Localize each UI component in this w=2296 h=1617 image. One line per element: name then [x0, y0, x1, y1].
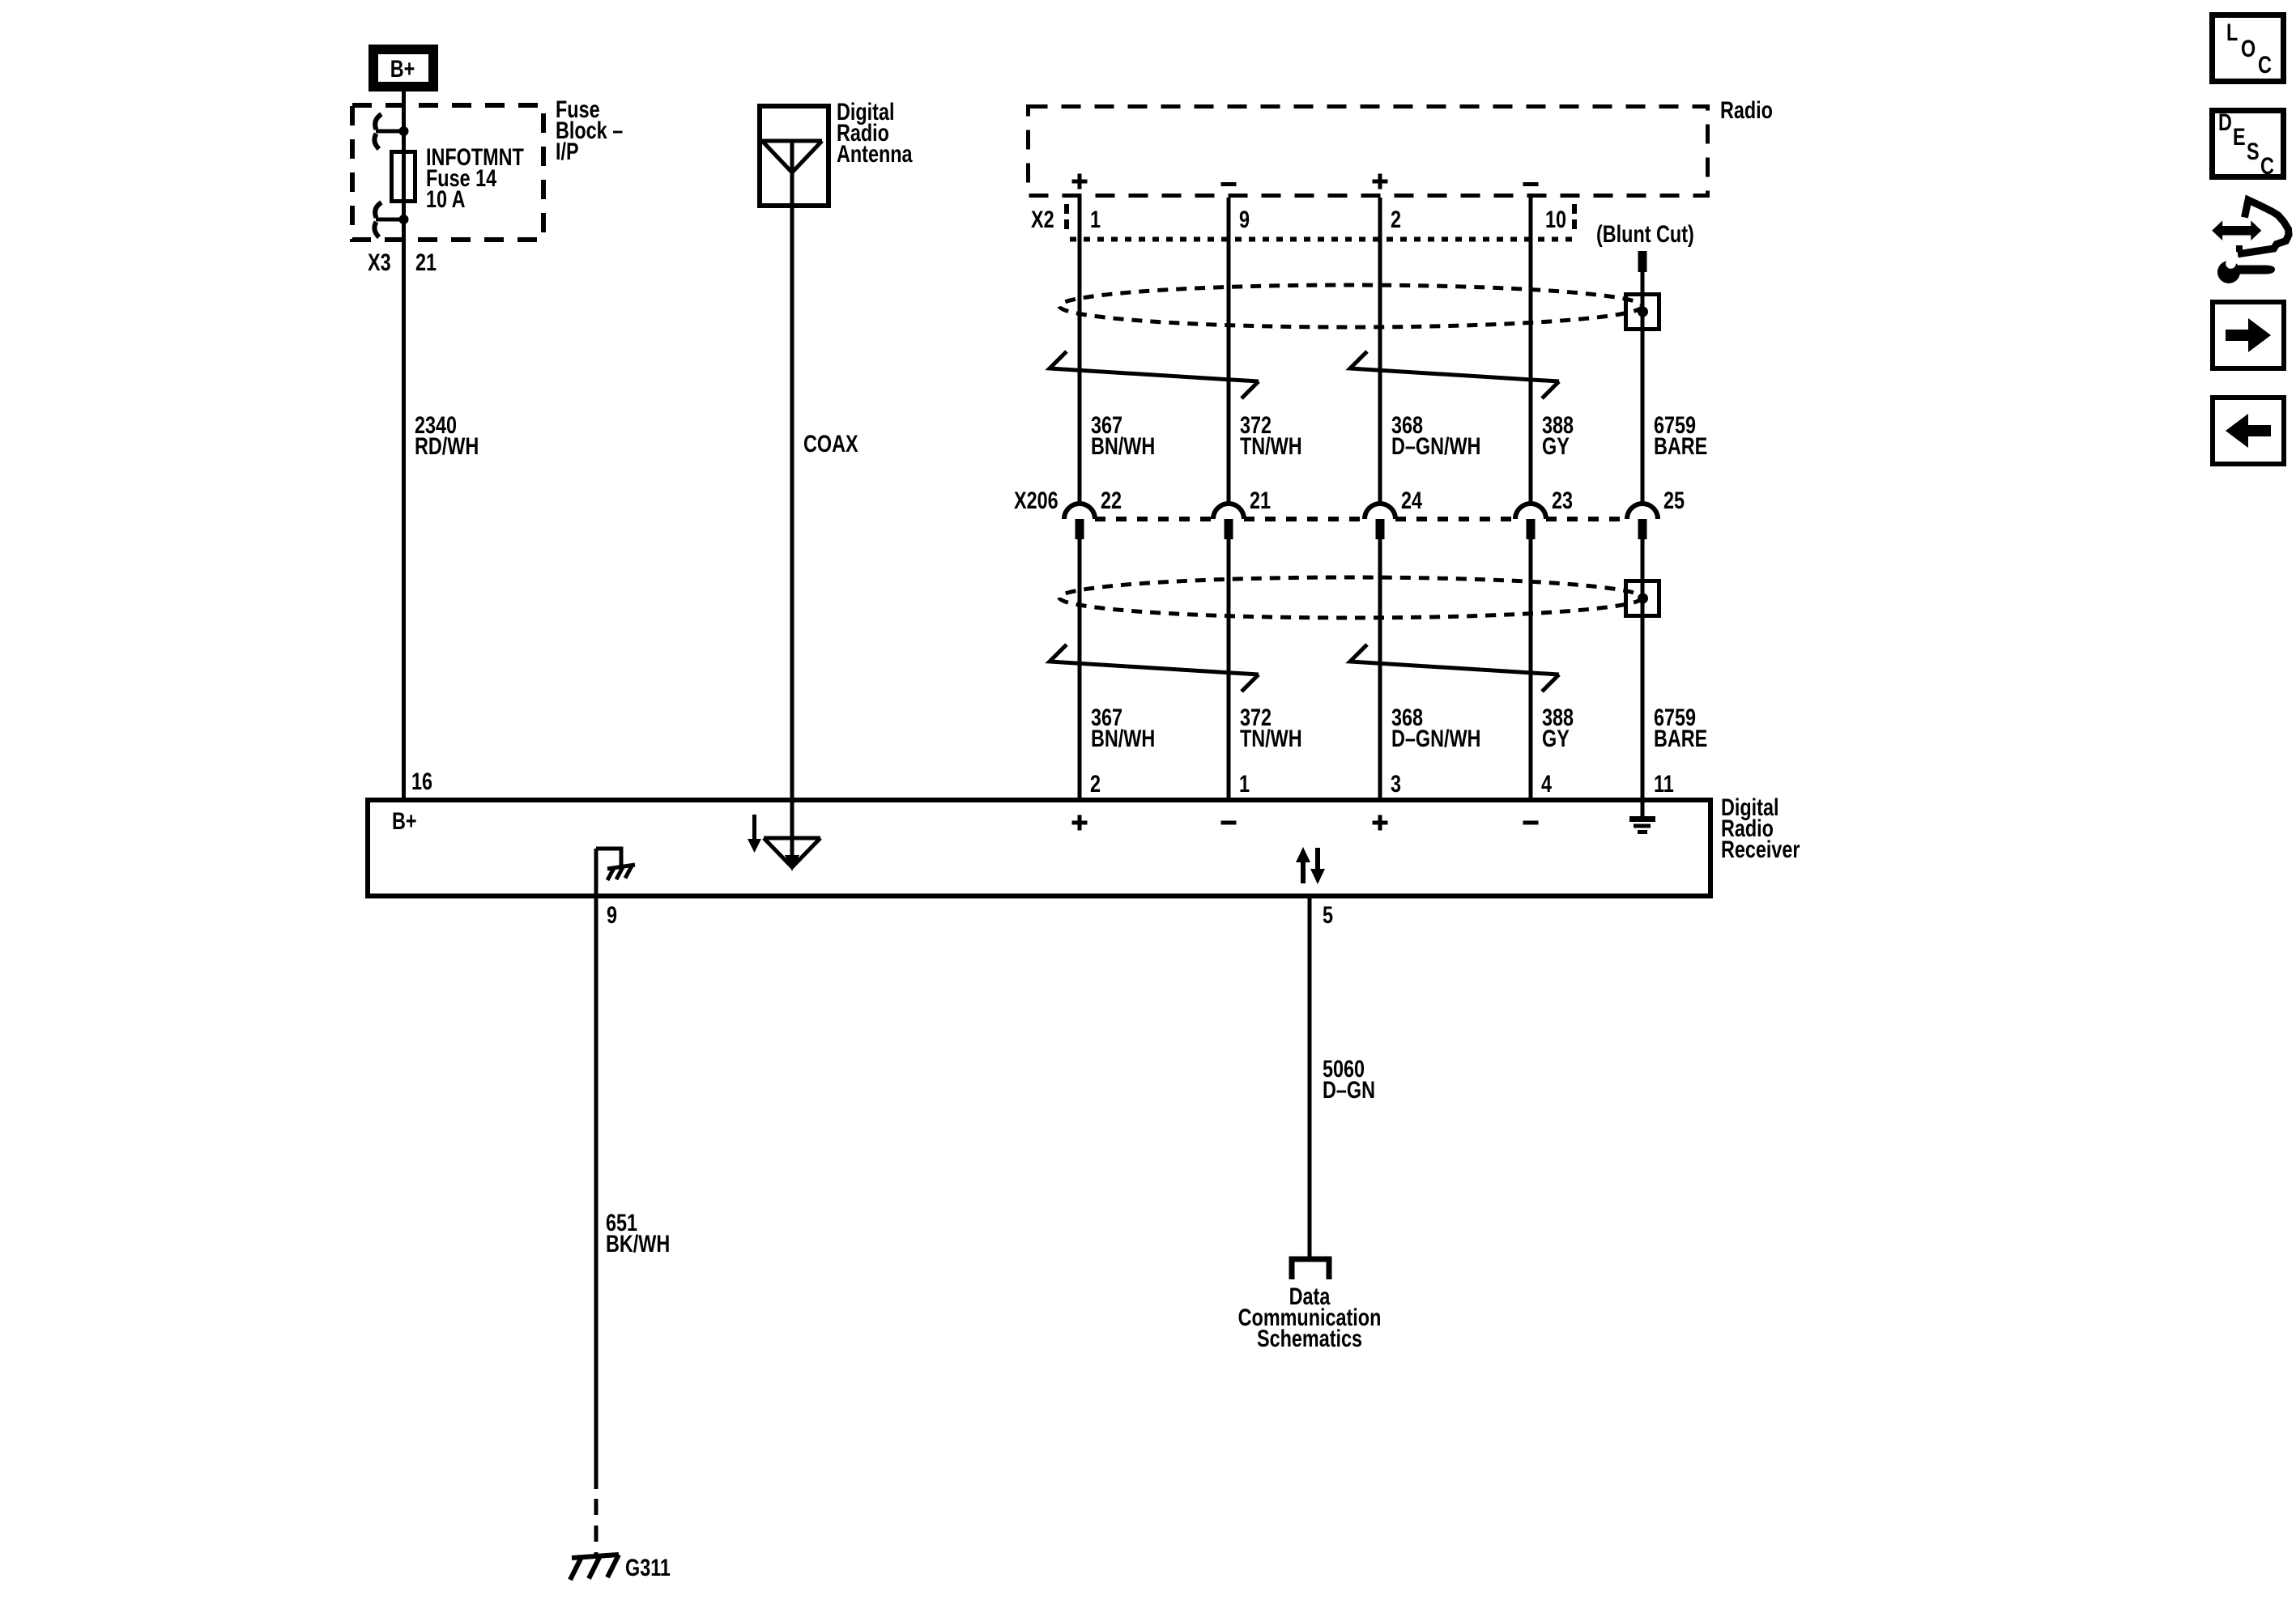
antenna: Digital Radio Antenna box — [760, 106, 829, 206]
svg-text:D–GN/WH: D–GN/WH — [1391, 725, 1480, 751]
svg-text:E: E — [2233, 123, 2246, 150]
svg-text:D–GN: D–GN — [1323, 1076, 1375, 1103]
wire label 5060 D-GN — [1323, 1055, 1375, 1103]
svg-text:D: D — [2218, 109, 2232, 135]
svg-text:BARE: BARE — [1654, 432, 1707, 459]
svg-text:25: 25 — [1663, 487, 1685, 513]
shield ellipse 2 (twisted shielded cable, lower) — [1059, 577, 1642, 618]
svg-text:TN/WH: TN/WH — [1240, 432, 1302, 459]
wire 651 BK/WH from receiver pin 9 — [594, 849, 598, 1489]
drain/shield termination box 1 with dot — [1626, 295, 1659, 330]
label Data Communication Schematics — [1238, 1283, 1382, 1351]
wire label 6759 BARE lower — [1654, 704, 1707, 751]
svg-text:3: 3 — [1391, 770, 1401, 797]
wire label 372 TN/WH lower — [1240, 704, 1302, 751]
label Digital Radio Antenna — [837, 98, 913, 167]
svg-text:(Blunt Cut): (Blunt Cut) — [1596, 220, 1694, 247]
polarity + inside receiver below pin 2 — [1072, 815, 1088, 831]
svg-text:21: 21 — [1250, 487, 1271, 513]
wire label 368 D-GN/WH upper — [1391, 411, 1480, 459]
svg-text:Receiver: Receiver — [1721, 836, 1800, 862]
wire: B+ feed 2340 RD/WH from B+ box through fuse to receiver pin 16 — [402, 91, 406, 798]
ground pigtail inside receiver at pin 9 — [596, 849, 635, 880]
svg-text:S: S — [2247, 138, 2260, 164]
connector X206 terminal bumps and pin stubs — [1064, 504, 1658, 539]
wire 5060 D-GN from receiver pin 5 — [1308, 898, 1312, 1259]
wire 368 D-GN/WH upper segment from radio X2 — [1378, 198, 1382, 505]
wire label 372 TN/WH upper — [1240, 411, 1302, 459]
serial data double arrow inside receiver at pin 5 — [1296, 847, 1325, 884]
svg-text:D–GN/WH: D–GN/WH — [1391, 432, 1480, 459]
connector X2 right end mark — [1572, 204, 1577, 234]
svg-text:1: 1 — [1090, 206, 1101, 232]
label Digital Radio Receiver — [1721, 794, 1800, 862]
polarity + at radio pin 1 — [1072, 174, 1088, 189]
ground G311 chassis ground symbol — [570, 1555, 619, 1580]
svg-text:2: 2 — [1090, 770, 1101, 797]
svg-text:23: 23 — [1552, 487, 1573, 513]
icon forward arrow box — [2213, 302, 2284, 368]
twist symbol pair 2 left (wires 367/372) — [1050, 645, 1259, 691]
polarity + inside receiver below pin 3 — [1373, 815, 1388, 831]
svg-text:BN/WH: BN/WH — [1091, 725, 1155, 751]
svg-text:C: C — [2258, 51, 2272, 78]
svg-text:X206: X206 — [1014, 487, 1059, 513]
icon hand with wrench and double arrow — [2212, 200, 2289, 283]
svg-text:11: 11 — [1654, 770, 1674, 797]
fuse block dashed box Fuse Block - I/P — [352, 105, 543, 240]
svg-text:2: 2 — [1391, 206, 1401, 232]
twist symbol pair 1 left (wires 367/372) — [1050, 351, 1259, 398]
svg-text:C: C — [2260, 152, 2274, 179]
wire 6759 BARE blunt-cut stub — [1638, 251, 1647, 272]
wire 6759 BARE upper segment — [1641, 272, 1645, 505]
wire 388 GY lower segment to receiver — [1529, 539, 1533, 798]
wire label 367 BN/WH upper — [1091, 411, 1155, 459]
antenna symbol inside antenna box — [762, 141, 822, 172]
svg-text:X2: X2 — [1031, 206, 1054, 232]
wire: COAX from antenna to receiver — [790, 141, 794, 798]
antenna symbol inside receiver — [764, 800, 820, 871]
svg-text:BN/WH: BN/WH — [1091, 432, 1155, 459]
wire label 2340 RD/WH — [415, 411, 479, 459]
wire label 368 D-GN/WH lower — [1391, 704, 1480, 751]
connector clip upper (fuse input terminal) — [374, 114, 408, 149]
svg-text:10 A: 10 A — [426, 185, 466, 212]
fuse INFOTMNT Fuse 14 10 A — [392, 143, 525, 212]
svg-text:4: 4 — [1541, 770, 1552, 797]
component Radio dashed box — [1029, 107, 1708, 196]
svg-text:COAX: COAX — [803, 430, 858, 457]
svg-text:G311: G311 — [625, 1554, 671, 1581]
svg-text:Antenna: Antenna — [837, 140, 913, 167]
connector X206 dashed line — [1095, 517, 1627, 521]
svg-text:Radio: Radio — [1720, 96, 1773, 123]
connector clip lower (fuse output terminal) — [374, 202, 408, 237]
svg-text:21: 21 — [415, 249, 437, 275]
wire 651 BK/WH dashed segment to G311 — [594, 1499, 598, 1554]
svg-text:I/P: I/P — [556, 138, 579, 164]
wire label 388 GY lower — [1542, 704, 1574, 751]
svg-text:16: 16 — [411, 768, 432, 794]
polarity + at radio pin 2 — [1373, 174, 1388, 189]
label Fuse Block - I/P — [556, 96, 623, 164]
wire label 388 GY upper — [1542, 411, 1574, 459]
polarity - at radio pin 9 — [1221, 182, 1237, 186]
wire 6759 BARE lower segment — [1641, 539, 1645, 798]
drain/shield termination box 2 with dot — [1626, 581, 1659, 616]
svg-text:L: L — [2226, 19, 2238, 45]
component Digital Radio Receiver box — [368, 800, 1710, 896]
svg-text:10: 10 — [1545, 206, 1566, 232]
svg-text:B+: B+ — [392, 807, 417, 834]
wire 368 D-GN/WH lower segment to receiver — [1378, 539, 1382, 798]
svg-text:BARE: BARE — [1654, 725, 1707, 751]
wire 367 BN/WH lower segment to receiver — [1078, 539, 1082, 798]
svg-text:X3: X3 — [368, 249, 391, 275]
svg-text:1: 1 — [1239, 770, 1250, 797]
off-page connector to Data Communication Schematics — [1292, 1259, 1329, 1279]
svg-text:GY: GY — [1542, 432, 1570, 459]
power symbol B+ (battery positive box) — [373, 49, 433, 87]
svg-text:24: 24 — [1401, 487, 1422, 513]
svg-text:GY: GY — [1542, 725, 1570, 751]
shield ellipse 1 (twisted shielded cable, upper) — [1059, 285, 1642, 327]
svg-text:9: 9 — [1239, 206, 1250, 232]
connector X2 dotted line — [1070, 237, 1574, 242]
svg-text:5: 5 — [1323, 901, 1333, 928]
icon back arrow box — [2213, 398, 2284, 464]
svg-text:9: 9 — [607, 901, 617, 928]
ground symbol inside receiver at pin 11 — [1629, 800, 1655, 832]
svg-text:O: O — [2241, 35, 2256, 62]
wire label 651 BK/WH — [606, 1209, 670, 1257]
connector X3 pin 21 labels — [368, 249, 437, 275]
connector X2 left end mark — [1064, 204, 1069, 234]
svg-text:Schematics: Schematics — [1257, 1325, 1362, 1351]
svg-text:B+: B+ — [390, 55, 415, 82]
twist symbol pair 2 right (wires 368/388) — [1350, 645, 1559, 691]
wire 367 BN/WH upper segment from radio X2 — [1078, 198, 1082, 505]
wire 372 TN/WH lower segment to receiver — [1227, 539, 1231, 798]
polarity - inside receiver below pin 1 — [1221, 821, 1237, 825]
polarity - inside receiver below pin 4 — [1523, 821, 1539, 825]
svg-text:22: 22 — [1101, 487, 1122, 513]
twist symbol pair 1 right (wires 368/388) — [1350, 351, 1559, 398]
wire label 6759 BARE upper — [1654, 411, 1707, 459]
wire 372 TN/WH upper segment from radio X2 — [1227, 198, 1231, 505]
icon DESC box — [2213, 109, 2284, 179]
antenna input arrow inside receiver — [748, 815, 761, 853]
svg-text:TN/WH: TN/WH — [1240, 725, 1302, 751]
wire 388 GY upper segment from radio X2 — [1529, 198, 1533, 505]
svg-text:BK/WH: BK/WH — [606, 1230, 670, 1257]
svg-text:RD/WH: RD/WH — [415, 432, 479, 459]
icon LOC box — [2213, 15, 2284, 82]
polarity - at radio pin 10 — [1523, 182, 1539, 186]
wire label 367 BN/WH lower — [1091, 704, 1155, 751]
